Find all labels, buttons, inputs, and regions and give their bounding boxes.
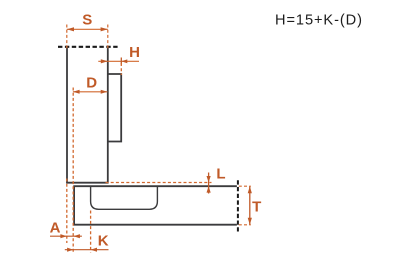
dimension S arrow left (67, 27, 74, 31)
dimension A line (50, 235, 82, 237)
dimension T arrow bottom (248, 218, 252, 225)
svg-text:L: L (216, 166, 225, 183)
svg-text:D: D (86, 75, 97, 92)
dimension D line (73, 91, 108, 93)
dimension T connector bottom dashed (239, 224, 251, 226)
dimension H line (98, 60, 139, 62)
dimension H tick (120, 58, 122, 65)
svg-text:K: K (98, 232, 109, 249)
dimension H extension dashed (120, 63, 122, 75)
dimension D arrow right (101, 90, 108, 94)
dimension L line (208, 173, 210, 194)
dimension S arrow right (101, 27, 108, 31)
door bottom edge (73, 224, 237, 226)
svg-text:A: A (50, 219, 61, 236)
side panel left edge (66, 47, 68, 183)
dimension L arrow bottom (207, 186, 211, 192)
dimension L arrow top (207, 176, 211, 182)
dimension S extension left (66, 25, 68, 49)
dimension D arrow left (73, 90, 80, 94)
dimension A arrow left (60, 234, 66, 238)
door break dashed line (237, 180, 239, 231)
cabinet top dashed break line (58, 46, 119, 48)
dimension K line (65, 249, 109, 251)
door top edge (73, 185, 237, 187)
dimension A arrow right (74, 234, 80, 238)
hinge cup (91, 186, 158, 209)
dimension S line (67, 28, 108, 30)
dimension H arrow right (121, 59, 127, 63)
dimension A extension dashed (66, 179, 68, 244)
dimension K arrow left (67, 248, 73, 252)
dimension H arrow left (101, 59, 108, 63)
side panel bottom edge (66, 182, 108, 184)
dimension T line (249, 186, 251, 225)
dimension T arrow top (248, 186, 252, 193)
dimension L panel-face dashed line (106, 182, 212, 184)
svg-text:T: T (252, 198, 261, 215)
door left edge (73, 186, 75, 225)
dimension T connector top dashed (239, 185, 251, 187)
dimension D extension dashed (door face line) (72, 88, 74, 253)
svg-text:H: H (129, 44, 140, 61)
side panel right edge (107, 47, 109, 183)
svg-text:H=15+K-(D): H=15+K-(D) (275, 12, 363, 28)
dimension S extension right (107, 25, 109, 49)
dimension K arrow right (91, 248, 97, 252)
mounting plate (108, 74, 121, 142)
dimension K extension dashed (cup edge) (90, 211, 92, 253)
svg-text:S: S (82, 12, 92, 29)
